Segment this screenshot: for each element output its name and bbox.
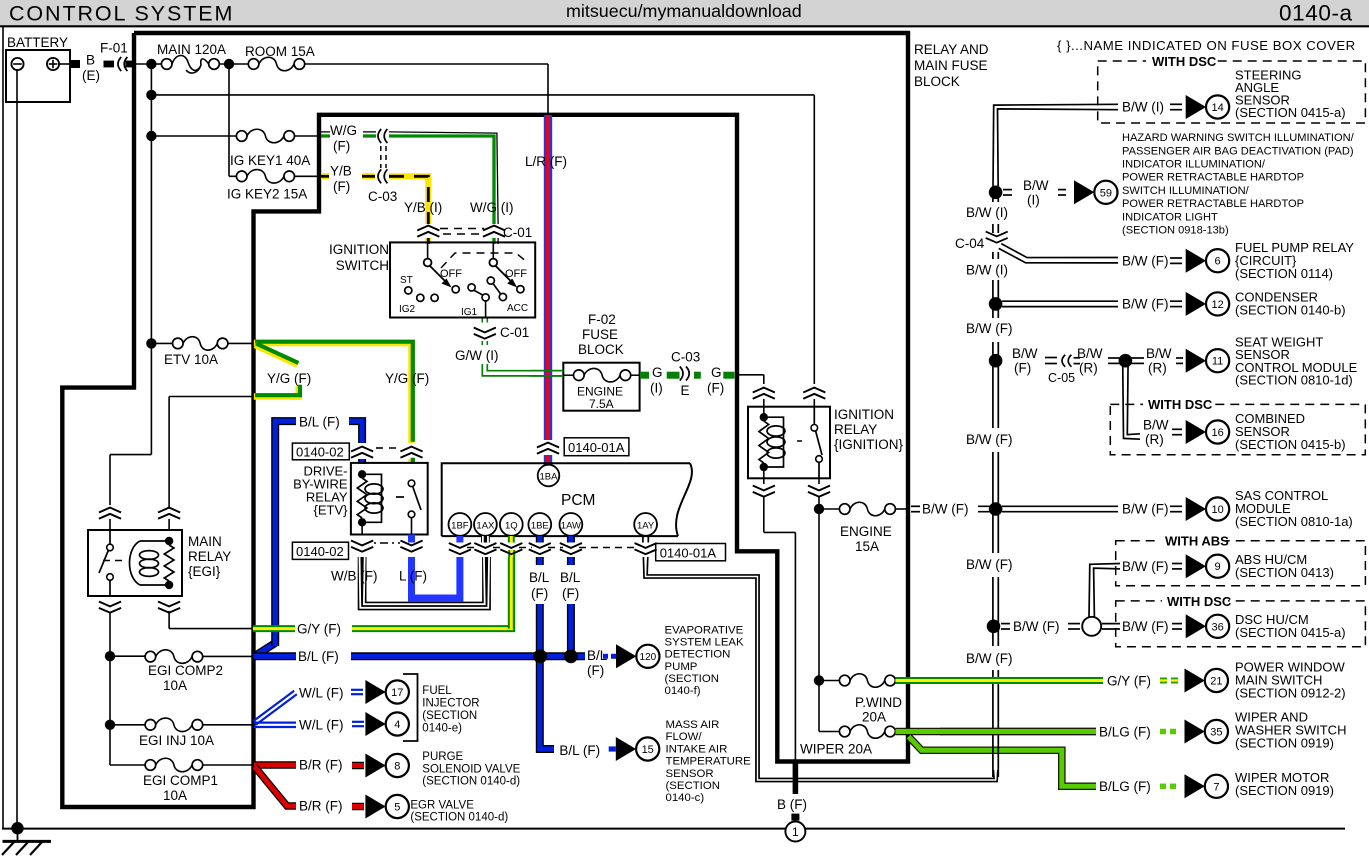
svg-text:B/W (I): B/W (I) <box>966 263 1008 278</box>
svg-text:(F): (F) <box>707 381 724 396</box>
svg-text:EVAPORATIVE: EVAPORATIVE <box>665 625 744 637</box>
svg-text:G/W (I): G/W (I) <box>455 348 499 363</box>
svg-text:ETV 10A: ETV 10A <box>164 352 218 367</box>
svg-text:EGI INJ 10A: EGI INJ 10A <box>139 733 214 748</box>
svg-text:MAIN: MAIN <box>188 534 222 549</box>
svg-text:W/B (F): W/B (F) <box>331 569 378 584</box>
svg-text:15: 15 <box>642 744 654 756</box>
svg-text:TEMPERATURE: TEMPERATURE <box>666 756 752 768</box>
svg-text:(SECTION 0919): (SECTION 0919) <box>1235 783 1334 798</box>
svg-text:12: 12 <box>1211 299 1223 311</box>
svg-text:(I): (I) <box>1027 193 1040 208</box>
svg-text:(SECTION 0413): (SECTION 0413) <box>1235 565 1334 580</box>
svg-text:PUMP: PUMP <box>665 661 698 673</box>
svg-text:F-02: F-02 <box>588 312 616 327</box>
svg-text:(R): (R) <box>1148 360 1167 375</box>
svg-text:59: 59 <box>1100 187 1112 199</box>
svg-text:(SECTION 0912-2): (SECTION 0912-2) <box>1235 686 1346 701</box>
svg-text:(SECTION: (SECTION <box>666 780 720 792</box>
svg-text:(SECTION 0415-a): (SECTION 0415-a) <box>1235 105 1346 120</box>
svg-text:16: 16 <box>1211 427 1223 439</box>
svg-text:{IGNITION}: {IGNITION} <box>834 437 904 452</box>
svg-text:0140-c): 0140-c) <box>666 792 705 804</box>
svg-text:INDICATOR ILLUMINATION/: INDICATOR ILLUMINATION/ <box>1122 159 1266 171</box>
svg-text:B/W: B/W <box>1143 418 1169 433</box>
svg-text:(SECTION 0140-b): (SECTION 0140-b) <box>1235 303 1346 318</box>
svg-text:B/W (F): B/W (F) <box>1122 559 1169 574</box>
svg-text:15A: 15A <box>855 539 879 554</box>
svg-text:0140-02: 0140-02 <box>296 544 344 559</box>
svg-text:L (F): L (F) <box>399 569 427 584</box>
svg-text:{ }...NAME INDICATED ON FUSE B: { }...NAME INDICATED ON FUSE BOX COVER <box>1057 38 1356 53</box>
svg-text:W/L (F): W/L (F) <box>299 718 344 733</box>
svg-text:B/W (F): B/W (F) <box>1122 254 1169 269</box>
svg-text:P.WIND: P.WIND <box>855 695 902 710</box>
svg-text:FLOW/: FLOW/ <box>666 731 703 743</box>
svg-text:MAIN FUSE: MAIN FUSE <box>914 58 988 73</box>
svg-text:10A: 10A <box>163 678 187 693</box>
svg-text:PASSENGER AIR BAG DEACTIVATION: PASSENGER AIR BAG DEACTIVATION (PAD) <box>1122 145 1354 157</box>
svg-text:(SECTION 0114): (SECTION 0114) <box>1235 266 1333 281</box>
svg-text:B/L (F): B/L (F) <box>299 415 340 430</box>
svg-text:10: 10 <box>1211 504 1223 516</box>
svg-text:120: 120 <box>640 652 657 663</box>
svg-text:Y/G (F): Y/G (F) <box>267 371 311 386</box>
svg-text:CONTROL SYSTEM: CONTROL SYSTEM <box>9 2 234 26</box>
svg-text:ENGINE: ENGINE <box>840 524 892 539</box>
svg-text:B/L: B/L <box>529 570 550 585</box>
svg-text:C-01: C-01 <box>503 225 532 240</box>
svg-text:INTAKE AIR: INTAKE AIR <box>666 743 728 755</box>
svg-text:(F): (F) <box>333 179 350 194</box>
svg-text:DETECTION: DETECTION <box>665 649 731 661</box>
svg-text:0140-f): 0140-f) <box>665 685 701 697</box>
svg-text:(F): (F) <box>531 586 548 601</box>
svg-text:(SECTION: (SECTION <box>422 710 477 722</box>
svg-text:20A: 20A <box>862 710 886 725</box>
svg-text:(SECTION 0415-b): (SECTION 0415-b) <box>1235 437 1346 452</box>
svg-text:W/G: W/G <box>330 123 357 138</box>
svg-text:(R): (R) <box>1145 432 1164 447</box>
svg-text:POWER RETRACTABLE HARDTOP: POWER RETRACTABLE HARDTOP <box>1122 172 1304 184</box>
svg-text:B/W (F): B/W (F) <box>1122 297 1169 312</box>
svg-text:B (F): B (F) <box>777 797 807 812</box>
svg-text:Y/B: Y/B <box>330 164 352 179</box>
svg-text:EGR VALVE: EGR VALVE <box>410 800 474 812</box>
svg-text:EGI COMP2: EGI COMP2 <box>148 663 223 678</box>
svg-text:B/L: B/L <box>560 570 581 585</box>
svg-text:WIPER 20A: WIPER 20A <box>800 742 872 757</box>
svg-text:FUEL: FUEL <box>422 685 452 697</box>
svg-text:PURGE: PURGE <box>422 751 463 763</box>
svg-text:G: G <box>711 365 722 380</box>
svg-text:B/L (F): B/L (F) <box>559 743 600 758</box>
svg-text:B/L (F): B/L (F) <box>298 649 339 664</box>
svg-text:OFF: OFF <box>505 268 527 280</box>
svg-text:(SECTION 0810-1d): (SECTION 0810-1d) <box>1235 373 1353 388</box>
svg-text:(F): (F) <box>587 663 604 678</box>
svg-text:RELAY: RELAY <box>188 549 231 564</box>
svg-text:B/R (F): B/R (F) <box>299 758 343 773</box>
svg-text:IG KEY2 15A: IG KEY2 15A <box>227 187 307 202</box>
svg-text:B/W (F): B/W (F) <box>966 651 1013 666</box>
svg-text:W/G (I): W/G (I) <box>470 200 514 215</box>
svg-text:(SECTION 0140-d): (SECTION 0140-d) <box>422 776 520 788</box>
svg-text:B/W (F): B/W (F) <box>1013 619 1060 634</box>
svg-text:5: 5 <box>394 801 400 813</box>
svg-text:B/W (F): B/W (F) <box>1122 502 1169 517</box>
svg-text:B/W: B/W <box>1023 178 1049 193</box>
svg-text:0140-a: 0140-a <box>1279 1 1353 26</box>
svg-text:B/W (I): B/W (I) <box>966 205 1008 220</box>
svg-text:B/W (F): B/W (F) <box>966 321 1013 336</box>
svg-text:{ETV}: {ETV} <box>314 503 349 518</box>
svg-text:(SECTION 0919): (SECTION 0919) <box>1235 736 1334 751</box>
svg-text:INDICATOR LIGHT: INDICATOR LIGHT <box>1122 211 1218 223</box>
svg-text:W/L (F): W/L (F) <box>299 686 344 701</box>
svg-text:L/R (F): L/R (F) <box>525 154 567 169</box>
svg-text:RELAY AND: RELAY AND <box>914 42 989 57</box>
svg-text:SENSOR: SENSOR <box>666 768 714 780</box>
svg-text:1BE: 1BE <box>531 520 549 531</box>
svg-text:B/W: B/W <box>1077 346 1103 361</box>
svg-text:IG KEY1 40A: IG KEY1 40A <box>230 153 310 168</box>
svg-text:RELAY: RELAY <box>834 422 877 437</box>
svg-text:ACC: ACC <box>507 303 528 314</box>
svg-text:IGNITION: IGNITION <box>834 407 894 422</box>
svg-text:BLOCK: BLOCK <box>914 74 960 89</box>
svg-text:(R): (R) <box>1079 360 1098 375</box>
svg-text:B/W (F): B/W (F) <box>966 432 1013 447</box>
svg-text:ST: ST <box>400 275 413 286</box>
svg-text:BLOCK: BLOCK <box>578 342 624 357</box>
svg-text:(SECTION 0918-13b): (SECTION 0918-13b) <box>1122 225 1229 237</box>
svg-text:POWER RETRACTABLE HARDTOP: POWER RETRACTABLE HARDTOP <box>1122 198 1304 210</box>
svg-text:(SECTION 0140-d): (SECTION 0140-d) <box>410 812 508 824</box>
svg-text:(F): (F) <box>1014 360 1031 375</box>
svg-text:Y/B (I): Y/B (I) <box>404 200 442 215</box>
svg-text:G/Y (F): G/Y (F) <box>297 622 341 637</box>
svg-text:1AY: 1AY <box>637 520 655 531</box>
svg-text:36: 36 <box>1211 621 1223 633</box>
svg-text:SWITCH: SWITCH <box>336 258 389 273</box>
svg-text:ROOM 15A: ROOM 15A <box>245 44 315 59</box>
svg-text:35: 35 <box>1210 726 1222 738</box>
svg-text:B/LG (F): B/LG (F) <box>1099 779 1151 794</box>
svg-text:1BA: 1BA <box>540 472 559 483</box>
svg-text:B/W (F): B/W (F) <box>966 557 1013 572</box>
svg-text:C-04: C-04 <box>955 236 985 251</box>
svg-text:0140-02: 0140-02 <box>296 445 344 460</box>
svg-text:WITH ABS: WITH ABS <box>1165 534 1229 549</box>
svg-text:C-01: C-01 <box>500 325 529 340</box>
svg-text:WITH DSC: WITH DSC <box>1148 397 1213 412</box>
svg-text:(F): (F) <box>562 586 579 601</box>
svg-text:C-05: C-05 <box>1048 371 1075 385</box>
svg-text:1BF: 1BF <box>451 520 469 531</box>
svg-text:MAIN 120A: MAIN 120A <box>157 42 226 57</box>
svg-text:0140-01A: 0140-01A <box>660 545 717 560</box>
svg-text:EGI COMP1: EGI COMP1 <box>143 773 218 788</box>
svg-text:(E): (E) <box>82 68 100 83</box>
svg-text:IG2: IG2 <box>399 304 416 315</box>
svg-text:B/W (F): B/W (F) <box>1122 619 1169 634</box>
svg-text:7: 7 <box>1213 781 1219 793</box>
svg-text:14: 14 <box>1211 102 1223 114</box>
svg-text:C-03: C-03 <box>368 189 397 204</box>
svg-text:SYSTEM LEAK: SYSTEM LEAK <box>665 637 745 649</box>
svg-text:MASS AIR: MASS AIR <box>666 719 720 731</box>
svg-text:INJECTOR: INJECTOR <box>422 698 479 710</box>
svg-text:G/Y (F): G/Y (F) <box>1107 673 1151 688</box>
svg-text:B/W: B/W <box>1146 346 1172 361</box>
svg-text:(SECTION: (SECTION <box>665 673 719 685</box>
svg-text:mitsuecu/mymanualdownload: mitsuecu/mymanualdownload <box>566 1 802 21</box>
svg-text:HAZARD WARNING SWITCH ILLUMINA: HAZARD WARNING SWITCH ILLUMINATION/ <box>1122 132 1355 144</box>
svg-text:B/W: B/W <box>1012 346 1038 361</box>
svg-text:B/LG (F): B/LG (F) <box>1099 724 1151 739</box>
svg-text:WITH DSC: WITH DSC <box>1152 54 1217 69</box>
svg-text:0140-01A: 0140-01A <box>568 440 625 455</box>
svg-text:6: 6 <box>1215 256 1221 268</box>
svg-text:B/W (I): B/W (I) <box>1122 100 1164 115</box>
svg-text:FUSE: FUSE <box>582 327 618 342</box>
svg-text:1: 1 <box>792 825 799 839</box>
svg-text:4: 4 <box>394 719 400 731</box>
svg-text:0140-e): 0140-e) <box>422 723 462 735</box>
svg-text:(F): (F) <box>333 139 350 154</box>
svg-text:OFF: OFF <box>440 268 462 280</box>
svg-text:BATTERY: BATTERY <box>7 35 68 50</box>
svg-text:B/R (F): B/R (F) <box>299 799 343 814</box>
svg-text:(SECTION 0810-1a): (SECTION 0810-1a) <box>1235 514 1353 529</box>
svg-text:B/W (F): B/W (F) <box>922 502 969 517</box>
svg-text:17: 17 <box>391 687 403 699</box>
svg-text:B: B <box>86 53 95 68</box>
svg-text:IGNITION: IGNITION <box>329 242 389 257</box>
svg-text:IG1: IG1 <box>461 307 478 318</box>
svg-text:E: E <box>681 383 690 398</box>
svg-text:G: G <box>652 365 663 380</box>
svg-text:1AW: 1AW <box>561 520 581 531</box>
svg-text:7.5A: 7.5A <box>589 397 614 411</box>
svg-text:WITH DSC: WITH DSC <box>1167 594 1232 609</box>
svg-text:9: 9 <box>1215 561 1221 573</box>
svg-text:Y/G (F): Y/G (F) <box>385 371 429 386</box>
svg-text:1Q: 1Q <box>505 520 518 531</box>
svg-text:C-03: C-03 <box>671 350 700 365</box>
svg-text:SWITCH ILLUMINATION/: SWITCH ILLUMINATION/ <box>1122 185 1250 197</box>
svg-text:8: 8 <box>394 760 400 772</box>
svg-text:F-01: F-01 <box>100 41 128 56</box>
svg-text:1AX: 1AX <box>476 520 495 531</box>
svg-text:(I): (I) <box>650 381 663 396</box>
svg-text:11: 11 <box>1212 356 1223 368</box>
svg-text:(SECTION 0415-a): (SECTION 0415-a) <box>1235 625 1346 640</box>
svg-text:SOLENOID VALVE: SOLENOID VALVE <box>422 763 520 775</box>
svg-text:PCM: PCM <box>561 492 595 509</box>
svg-text:21: 21 <box>1210 675 1222 687</box>
svg-text:10A: 10A <box>163 788 187 803</box>
svg-text:{EGI}: {EGI} <box>188 564 221 579</box>
